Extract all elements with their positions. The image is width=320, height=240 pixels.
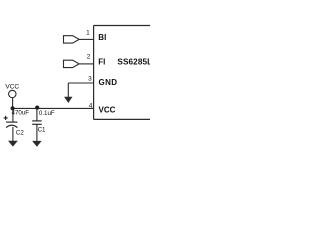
- capacitor C1 0.1uF: [32, 108, 55, 141]
- svg-text:C1: C1: [38, 127, 46, 134]
- svg-text:0.1uF: 0.1uF: [39, 110, 55, 117]
- svg-text:3: 3: [88, 75, 92, 82]
- capacitor C2 470uF (polarized): [4, 108, 30, 141]
- svg-text:GND: GND: [99, 78, 118, 87]
- ground (below C2): [8, 141, 18, 147]
- wire connector2 to pin FI: [79, 63, 93, 65]
- svg-text:2: 2: [87, 54, 91, 61]
- ground (below C1): [32, 141, 42, 147]
- svg-text:VCC: VCC: [5, 83, 19, 90]
- power VCC: [5, 83, 19, 108]
- svg-text:FI: FI: [98, 58, 105, 67]
- op-amp U1 SS6285L (IC body, clipped at right edge): [94, 26, 153, 120]
- wire connector1 to pin BI: [79, 38, 93, 40]
- junction dot C1: [35, 106, 39, 110]
- svg-text:C2: C2: [16, 130, 24, 137]
- svg-text:1: 1: [86, 29, 90, 36]
- junction dot VCC/C2: [11, 106, 15, 110]
- off-page connector to FI: [64, 60, 80, 67]
- svg-text:BI: BI: [98, 33, 106, 42]
- wire VCC rail: [13, 107, 94, 109]
- svg-text:470uF: 470uF: [12, 110, 30, 117]
- svg-text:SS6285L: SS6285L: [117, 58, 150, 67]
- wire pin GND vertical: [67, 83, 69, 98]
- wire pin GND horizontal: [68, 82, 93, 84]
- off-page connector to BI: [64, 36, 80, 43]
- ground (arrow at GND pin): [64, 97, 72, 103]
- svg-text:VCC: VCC: [99, 105, 116, 114]
